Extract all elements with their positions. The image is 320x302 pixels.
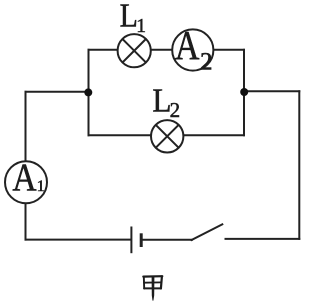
svg-text:A: A [12, 156, 36, 199]
svg-text:A: A [175, 23, 200, 69]
svg-text:2: 2 [170, 98, 181, 122]
svg-text:2: 2 [200, 48, 213, 75]
svg-text:1: 1 [37, 178, 45, 195]
svg-text:1: 1 [136, 16, 146, 37]
svg-text:L: L [120, 0, 138, 34]
